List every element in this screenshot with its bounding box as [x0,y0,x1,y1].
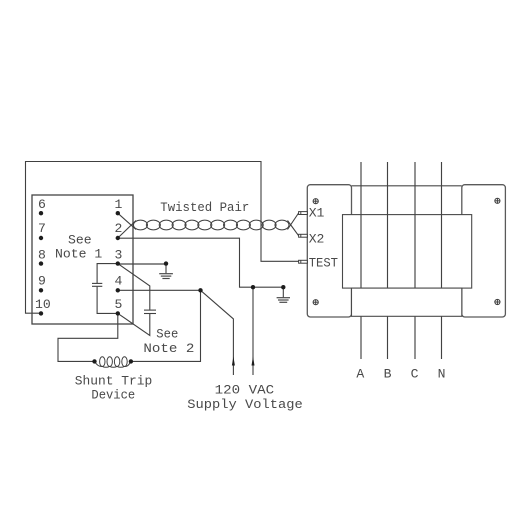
svg-text:C: C [411,366,419,381]
svg-text:X2: X2 [309,232,325,247]
svg-text:TEST: TEST [309,256,338,271]
svg-text:5: 5 [115,297,123,312]
svg-text:7: 7 [38,221,46,236]
svg-text:4: 4 [115,274,123,289]
svg-text:120 VAC: 120 VAC [215,383,275,398]
svg-text:A: A [356,366,364,381]
svg-text:N: N [438,366,446,381]
svg-text:9: 9 [38,274,46,289]
svg-text:B: B [384,366,392,381]
svg-text:Supply Voltage: Supply Voltage [187,397,302,412]
svg-text:Device: Device [91,387,135,402]
svg-text:6: 6 [38,197,46,212]
svg-text:See: See [156,327,178,342]
svg-text:X1: X1 [309,206,325,221]
svg-text:10: 10 [35,297,51,312]
svg-text:Twisted Pair: Twisted Pair [160,200,249,215]
svg-text:Note 1: Note 1 [55,247,102,262]
svg-text:1: 1 [115,197,123,212]
svg-text:3: 3 [115,247,123,262]
svg-text:See: See [68,233,92,248]
svg-text:2: 2 [115,221,123,236]
svg-text:Note 2: Note 2 [143,341,194,356]
svg-text:8: 8 [38,247,46,262]
